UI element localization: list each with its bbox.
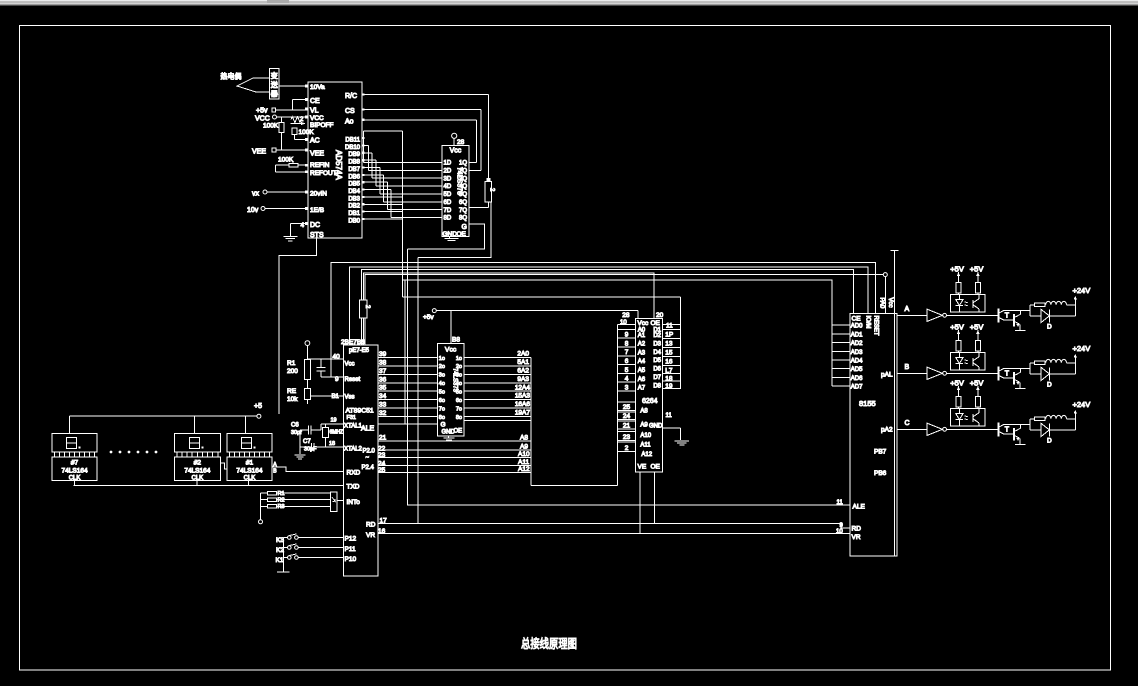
svg-text:DB5: DB5 <box>348 182 360 188</box>
svg-text:DC: DC <box>310 222 320 229</box>
svg-text:PA0: PA0 <box>879 298 885 310</box>
svg-text:37: 37 <box>379 368 387 375</box>
svg-text:DB4: DB4 <box>348 189 360 195</box>
svg-text:DB10: DB10 <box>345 145 361 151</box>
wire CS to 2Q <box>362 110 481 171</box>
svg-text:Vcc: Vcc <box>345 362 355 368</box>
svg-text:B1: B1 <box>332 394 340 400</box>
svg-text:A9: A9 <box>520 444 528 451</box>
svg-text:15A3: 15A3 <box>515 393 531 400</box>
svg-text:4Q: 4Q <box>459 184 467 190</box>
wire OE line L3b <box>363 273 654 345</box>
MCU outside pin numbers <box>329 354 340 448</box>
wires P0 bus MCU to U4 <box>378 358 438 417</box>
wire WE drop <box>639 472 641 534</box>
svg-text:P11: P11 <box>345 546 356 553</box>
svg-text:Vcc: Vcc <box>445 347 457 354</box>
svg-text:VE: VE <box>638 464 647 471</box>
U4 pin labels <box>439 356 462 421</box>
latch U2 74LS373 body <box>442 145 469 236</box>
svg-text:32: 32 <box>379 410 387 417</box>
8155 top labels <box>852 298 893 336</box>
svg-text:Vcc: Vcc <box>887 298 893 308</box>
wire OE drop <box>654 472 656 524</box>
svg-text:DB2: DB2 <box>348 204 360 210</box>
svg-text:7o: 7o <box>456 406 462 412</box>
svg-text:10v: 10v <box>247 207 259 214</box>
svg-text:11: 11 <box>666 413 673 419</box>
svg-text:6o: 6o <box>456 398 462 404</box>
svg-text:4: 4 <box>625 376 629 383</box>
wire V4 vertical <box>417 257 419 523</box>
wire +5v rail <box>436 311 638 344</box>
svg-text:P12: P12 <box>345 536 357 543</box>
svg-text:2BE7B6: 2BE7B6 <box>341 339 365 346</box>
transducer box <box>270 69 280 100</box>
svg-text:A11: A11 <box>640 443 651 449</box>
svg-text:DB8: DB8 <box>348 160 360 166</box>
U4 bottom labels <box>441 422 463 436</box>
svg-text:DB9: DB9 <box>348 152 360 158</box>
U4 label B8 <box>452 337 460 344</box>
svg-text:5o: 5o <box>456 390 462 396</box>
crystal 6MHZ <box>322 424 343 447</box>
svg-text:AD4: AD4 <box>851 358 863 364</box>
svg-text:C: C <box>905 420 910 427</box>
svg-text:6o: 6o <box>439 398 445 404</box>
crystal ground <box>295 430 306 459</box>
capacitor C7 <box>300 439 344 453</box>
8155 AD labels <box>851 324 863 391</box>
terminal VEE <box>252 148 308 155</box>
U2 pin 28 Vcc <box>452 133 465 146</box>
wire U4 OE row <box>464 419 531 421</box>
svg-text:200: 200 <box>287 368 298 375</box>
svg-text:Vcc: Vcc <box>450 148 462 155</box>
svg-text:A10: A10 <box>640 433 651 439</box>
wire STS run <box>279 238 317 414</box>
U5 data pin cells <box>663 330 681 391</box>
svg-text:Ao: Ao <box>345 119 354 126</box>
svg-text:vx: vx <box>252 191 260 198</box>
svg-text:VR: VR <box>366 532 375 539</box>
svg-text:A12: A12 <box>518 466 530 473</box>
svg-text:RD: RD <box>366 522 376 529</box>
svg-text:3D: 3D <box>444 176 452 182</box>
resistor 100K mid <box>292 128 314 140</box>
wire Ao to 1Q <box>362 120 476 163</box>
svg-text:D6: D6 <box>653 367 661 373</box>
U5 address labels inside <box>638 328 653 459</box>
label thermocouple <box>221 72 242 81</box>
svg-text:pE7-E5: pE7-E5 <box>349 348 370 354</box>
resistor RE 10k <box>287 388 310 403</box>
AD574A pin ticks <box>305 85 364 225</box>
svg-text:19: 19 <box>665 383 673 390</box>
svg-text:1D: 1D <box>444 161 452 167</box>
svg-text:+5V: +5V <box>950 264 964 273</box>
svg-text:VEE: VEE <box>310 151 324 158</box>
svg-text:D: D <box>1047 323 1052 330</box>
svg-text:20vIN: 20vIN <box>310 191 327 198</box>
ADC U1 AD574A body <box>308 82 362 238</box>
svg-text:R2: R2 <box>278 498 285 504</box>
svg-text:+5V: +5V <box>950 378 964 387</box>
svg-text:CE: CE <box>310 98 320 105</box>
svg-text:#1: #1 <box>246 460 254 467</box>
svg-text:器: 器 <box>271 90 278 98</box>
svg-text:4D: 4D <box>444 184 452 190</box>
svg-text:5o: 5o <box>439 390 445 396</box>
svg-text:RESET: RESET <box>873 316 879 336</box>
svg-text:T: T <box>1005 312 1010 319</box>
svg-text:AD6: AD6 <box>851 376 863 382</box>
wire G loop <box>408 224 485 249</box>
driver channel A <box>897 264 1090 330</box>
data bus top link <box>364 131 403 138</box>
U2 ground <box>445 237 459 241</box>
svg-text:7Q: 7Q <box>459 208 467 214</box>
ellipsis dots <box>110 451 158 454</box>
wire RXD <box>272 467 344 472</box>
svg-text:9A3: 9A3 <box>517 376 529 383</box>
svg-text:DB3: DB3 <box>348 196 360 202</box>
wires U4 outputs to bus <box>464 358 531 417</box>
svg-text:DB0: DB0 <box>348 218 360 224</box>
svg-text:RXD: RXD <box>347 470 361 477</box>
wire pin40 <box>307 358 343 360</box>
svg-text:AD2: AD2 <box>851 341 863 347</box>
terminal 10v <box>247 207 308 215</box>
U5 A1-A7 pin cells <box>618 329 636 391</box>
svg-text:3Q: 3Q <box>459 176 467 182</box>
svg-text:XTAL2: XTAL2 <box>344 447 363 453</box>
switches K1 K2 K3 <box>276 534 344 564</box>
AD574A right pin labels <box>345 93 361 224</box>
terminal +5v <box>256 108 308 115</box>
svg-text:A5: A5 <box>638 368 646 374</box>
svg-text:6264: 6264 <box>642 398 658 405</box>
wire R1 to RE <box>306 380 308 389</box>
svg-text:A: A <box>905 306 910 313</box>
terminal VCC <box>255 115 308 123</box>
svg-text:16: 16 <box>665 359 673 366</box>
display module #1 74LS164 <box>227 434 272 482</box>
svg-text:+24V: +24V <box>1073 400 1091 409</box>
svg-text:13: 13 <box>665 341 673 348</box>
svg-text:OE: OE <box>454 429 463 435</box>
svg-text:TXD: TXD <box>347 484 360 491</box>
svg-text:8o: 8o <box>439 415 445 421</box>
svg-text:+5V: +5V <box>970 322 984 331</box>
svg-text:G: G <box>441 422 446 429</box>
MCU right pin numbers <box>378 351 387 535</box>
MCU top labels <box>341 339 370 354</box>
svg-text:18: 18 <box>665 376 673 383</box>
address bus vertical <box>531 358 618 486</box>
svg-text:CLK: CLK <box>192 476 204 482</box>
svg-text:G: G <box>462 224 467 231</box>
wire INT0 common <box>259 493 263 524</box>
svg-text:IO/M: IO/M <box>865 316 871 329</box>
U4 ground <box>444 436 455 440</box>
svg-text:VL: VL <box>310 108 319 115</box>
wires +5 drops <box>69 416 245 433</box>
svg-text:1o: 1o <box>456 356 462 362</box>
svg-text:5Q: 5Q <box>459 192 467 198</box>
svg-text:D7: D7 <box>653 375 661 381</box>
potentiometer BIPOFF <box>291 117 306 126</box>
wire TXD CLK bus <box>74 481 344 486</box>
svg-text:R1: R1 <box>278 491 285 497</box>
svg-text:12A4: 12A4 <box>515 384 531 391</box>
U5 left spine <box>617 325 619 486</box>
svg-text:36: 36 <box>379 376 387 383</box>
svg-text:6D: 6D <box>444 200 452 206</box>
driver channel B <box>897 322 1090 388</box>
MCU left labels <box>344 362 376 564</box>
svg-text:VR: VR <box>852 534 861 541</box>
svg-text:4o: 4o <box>456 381 462 387</box>
svg-text:DB1: DB1 <box>348 211 360 217</box>
svg-text:24: 24 <box>623 413 631 420</box>
capacitor reset <box>317 359 326 377</box>
AD574A left pin labels <box>310 84 337 239</box>
U5 right spine <box>679 297 681 389</box>
svg-text:74LS164: 74LS164 <box>62 468 88 475</box>
svg-text:DB6: DB6 <box>348 174 360 180</box>
svg-text:A4: A4 <box>638 359 646 365</box>
svg-text:DB11: DB11 <box>345 138 360 144</box>
svg-text:74LS164: 74LS164 <box>236 468 262 475</box>
wire R/C to resistor <box>362 95 488 179</box>
U2 bottom labels <box>443 224 467 238</box>
svg-text:#2: #2 <box>194 460 202 467</box>
svg-text:AD1: AD1 <box>851 332 863 338</box>
connector INT0 <box>331 492 344 512</box>
IO U6 8155 body <box>850 314 897 556</box>
labels A B <box>273 462 277 475</box>
wire CE tie <box>293 100 308 111</box>
svg-text:P2.0: P2.0 <box>363 449 376 455</box>
svg-text:L7: L7 <box>665 368 673 375</box>
wires AD stubs <box>832 325 850 386</box>
svg-text:23: 23 <box>623 434 631 441</box>
svg-text:6A2: 6A2 <box>517 368 529 375</box>
wire pin9 reset <box>321 376 344 378</box>
svg-text:B8: B8 <box>452 337 460 344</box>
svg-text:REFOUT: REFOUT <box>310 170 337 177</box>
capacitor C6 <box>291 423 311 437</box>
terminal 8155 Vcc <box>883 273 887 314</box>
svg-text:9: 9 <box>625 332 629 339</box>
svg-text:STS: STS <box>310 232 324 239</box>
svg-text:pAL: pAL <box>881 372 893 379</box>
resistor 100K bias <box>263 117 284 150</box>
svg-text:T: T <box>1005 426 1010 433</box>
svg-text:RD: RD <box>852 526 862 533</box>
svg-text:A11: A11 <box>518 459 529 466</box>
wire cascade #2 to #1 <box>220 463 227 469</box>
svg-text:+5: +5 <box>254 403 262 410</box>
svg-text:R/C: R/C <box>345 93 357 100</box>
svg-text:D3: D3 <box>653 341 661 347</box>
wire Vcc line L4 <box>365 275 883 345</box>
svg-text:送: 送 <box>271 80 278 89</box>
svg-text:20: 20 <box>656 312 664 319</box>
svg-text:2o: 2o <box>439 364 445 370</box>
svg-text:7: 7 <box>625 349 629 356</box>
resistor R pullup 2 <box>360 300 370 318</box>
wire DC to ground <box>290 224 308 237</box>
svg-text:25: 25 <box>623 404 631 411</box>
data bus fan DB3-DB0 <box>362 197 403 219</box>
svg-text:D8: D8 <box>653 383 661 389</box>
wire AD bus line L5 <box>403 280 833 386</box>
svg-text:6MHZ: 6MHZ <box>330 430 344 436</box>
svg-text:8Q: 8Q <box>459 216 467 222</box>
U2 pin labels <box>444 161 468 222</box>
svg-text:AD7: AD7 <box>851 385 863 391</box>
svg-text:5: 5 <box>625 367 629 374</box>
U5 GND pin <box>649 413 680 440</box>
svg-text:GND: GND <box>649 424 663 430</box>
svg-text:A8: A8 <box>520 435 528 442</box>
svg-text:A2: A2 <box>638 342 646 348</box>
svg-text:P2.4: P2.4 <box>362 465 375 471</box>
svg-text:+5V: +5V <box>950 322 964 331</box>
svg-text:35: 35 <box>379 385 387 392</box>
svg-text:A1: A1 <box>638 333 646 339</box>
label pin4 DC <box>301 222 305 229</box>
resistor R1 200 <box>287 360 310 380</box>
svg-text:1E/B: 1E/B <box>310 207 324 214</box>
svg-text:8155: 8155 <box>859 399 876 408</box>
svg-text:AD5: AD5 <box>851 367 863 373</box>
svg-text:C6: C6 <box>291 423 299 429</box>
svg-text:AT89C51: AT89C51 <box>346 408 374 415</box>
svg-text:3: 3 <box>625 384 629 391</box>
svg-text:K1: K1 <box>276 557 284 564</box>
svg-text:VEE: VEE <box>252 149 266 156</box>
svg-text:RE: RE <box>287 388 297 395</box>
svg-text:15: 15 <box>665 350 673 357</box>
svg-text:总接线原理图: 总接线原理图 <box>521 636 577 651</box>
svg-text:3o: 3o <box>456 373 462 379</box>
svg-text:11: 11 <box>837 500 844 506</box>
svg-text:38: 38 <box>379 359 387 366</box>
terminal vx <box>252 190 308 198</box>
net labels A8-A12 <box>518 435 530 474</box>
svg-text:34: 34 <box>379 393 387 400</box>
svg-text:CLK: CLK <box>69 476 81 482</box>
svg-text:F31: F31 <box>347 415 356 421</box>
wire transducer to 10Vin <box>279 85 308 87</box>
wire Vcc to R1 <box>306 346 308 360</box>
svg-text:5A1: 5A1 <box>517 359 529 366</box>
wire VR line <box>378 533 850 535</box>
svg-text:XTAL1: XTAL1 <box>344 424 363 430</box>
data bus vertical V1 <box>402 131 404 297</box>
svg-text:2D: 2D <box>444 168 452 174</box>
svg-text:28: 28 <box>622 312 630 319</box>
svg-text:VCC: VCC <box>255 116 270 123</box>
net labels 2A0-19A7 <box>515 351 531 417</box>
svg-text:D4: D4 <box>653 350 661 356</box>
wire 8Q loop <box>418 202 491 257</box>
svg-text:19A7: 19A7 <box>515 410 531 417</box>
svg-text:16A6: 16A6 <box>515 401 531 408</box>
display module #2 74LS164 <box>174 434 220 482</box>
svg-text:21: 21 <box>623 423 631 430</box>
svg-text:P10: P10 <box>345 556 357 563</box>
wire Vss <box>307 396 343 404</box>
U5 data labels inside <box>653 328 661 390</box>
svg-text:Reset: Reset <box>345 377 361 383</box>
8155 inner labels <box>852 372 893 542</box>
svg-text:2A0: 2A0 <box>517 351 529 358</box>
display module #7 74LS164 <box>52 434 97 482</box>
svg-text:OE: OE <box>651 464 661 471</box>
svg-text:Vcc: Vcc <box>637 320 649 327</box>
svg-text:VCC: VCC <box>310 115 324 122</box>
svg-text:100K: 100K <box>299 129 315 136</box>
wire data line L6 <box>403 296 681 298</box>
svg-text:INTo: INTo <box>347 499 361 506</box>
resistor R 2K <box>485 178 494 202</box>
svg-text:3o: 3o <box>439 373 445 379</box>
svg-text:#7: #7 <box>71 460 79 467</box>
svg-text:R1: R1 <box>287 360 296 367</box>
svg-text:B: B <box>273 469 277 475</box>
svg-text:PB6: PB6 <box>874 470 887 477</box>
wire RD line <box>378 523 850 528</box>
svg-text:+24V: +24V <box>1073 286 1091 295</box>
svg-text:+24V: +24V <box>1073 344 1091 353</box>
title <box>521 636 577 651</box>
ground DC <box>283 237 297 241</box>
svg-text:7D: 7D <box>444 208 452 214</box>
svg-text:AD0: AD0 <box>851 324 863 330</box>
svg-text:28: 28 <box>457 139 465 146</box>
svg-text:1o: 1o <box>439 356 445 362</box>
svg-text:变: 变 <box>271 71 278 80</box>
wire ALE vertical V3 <box>408 249 850 505</box>
svg-text:74LS164: 74LS164 <box>184 468 210 475</box>
svg-text:CS: CS <box>345 108 355 115</box>
svg-text:A3: A3 <box>638 350 646 356</box>
svg-text:7o: 7o <box>439 406 445 412</box>
svg-text:D5: D5 <box>653 358 661 364</box>
svg-text:30pf: 30pf <box>291 430 302 436</box>
svg-text:D: D <box>1047 437 1052 444</box>
U5 pin11 D0 <box>663 323 681 330</box>
wires P2 address rows <box>378 441 531 473</box>
data bus fan DB11-DB4 to 1D-8D <box>362 138 442 217</box>
svg-text:D2: D2 <box>653 333 661 339</box>
svg-text:100K: 100K <box>263 123 279 130</box>
svg-text:A12: A12 <box>641 452 652 458</box>
svg-text:2: 2 <box>625 445 629 452</box>
svg-text:10k: 10k <box>287 396 298 403</box>
svg-text:R3: R3 <box>278 504 285 510</box>
svg-text:OE: OE <box>457 231 467 238</box>
svg-text:1Q: 1Q <box>459 161 467 167</box>
svg-text:18: 18 <box>329 441 335 447</box>
svg-text:39: 39 <box>379 351 387 358</box>
svg-text:~: ~ <box>366 455 370 461</box>
latch U4 74LS373 body <box>438 344 464 437</box>
